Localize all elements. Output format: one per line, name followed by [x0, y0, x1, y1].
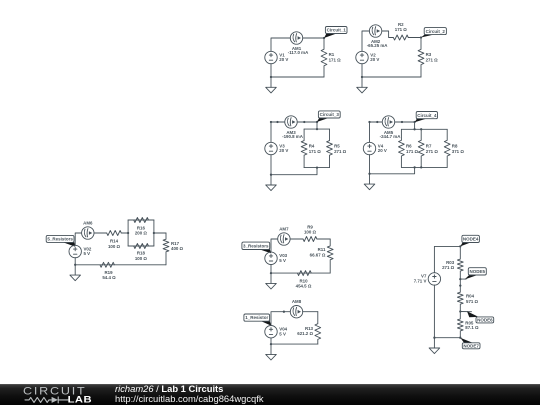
resistor R13 — [297, 312, 320, 344]
junction — [270, 121, 272, 123]
resistor R6 — [399, 129, 419, 167]
wire — [316, 122, 318, 129]
resistor R14 — [107, 231, 122, 249]
resistor R17 — [163, 233, 183, 265]
junction — [368, 121, 370, 123]
ground — [266, 77, 277, 93]
svg-text:Circuit_4: Circuit_4 — [417, 113, 437, 118]
resistor R1 — [321, 38, 341, 77]
node Circuit_1 flag — [324, 27, 347, 39]
svg-text:5 V: 5 V — [279, 331, 286, 336]
wire — [395, 121, 415, 123]
wire — [94, 232, 107, 234]
svg-text:5_Resistors: 5_Resistors — [47, 237, 73, 242]
svg-text:87.1 Ω: 87.1 Ω — [465, 325, 479, 330]
resistor R4 — [301, 129, 321, 168]
ground — [266, 175, 277, 191]
svg-text:20 V: 20 V — [370, 57, 379, 62]
svg-text:7.71 V: 7.71 V — [414, 279, 427, 284]
svg-text:NODE6: NODE6 — [477, 318, 493, 323]
svg-text:5 V: 5 V — [279, 258, 286, 263]
junction — [361, 76, 363, 78]
resistor R03 — [442, 246, 463, 279]
wire — [75, 233, 81, 245]
ammeter AM6 — [82, 220, 94, 239]
svg-text:454.5 Ω: 454.5 Ω — [296, 284, 312, 289]
svg-text:171 Ω: 171 Ω — [329, 57, 342, 62]
wire parallel box top — [401, 128, 447, 130]
svg-text:400 Ω: 400 Ω — [171, 246, 184, 251]
wire — [114, 264, 166, 266]
node NODE5 junction — [459, 278, 461, 280]
node Circuit_1 junction — [323, 37, 325, 39]
wire — [270, 64, 272, 77]
wire — [433, 285, 435, 338]
wire — [303, 37, 324, 39]
wire — [362, 76, 421, 78]
wire — [270, 155, 272, 175]
junction — [459, 284, 461, 286]
junction — [283, 311, 285, 313]
svg-text:AM7: AM7 — [279, 226, 289, 231]
ground — [364, 174, 375, 190]
node Circuit_3 junction — [316, 121, 318, 123]
svg-text:NODE5: NODE5 — [470, 269, 486, 274]
wire — [290, 238, 303, 240]
resistor R10 — [271, 271, 312, 289]
resistor R16 — [128, 218, 148, 236]
node NODE7 flag — [460, 338, 480, 349]
ground — [357, 77, 368, 93]
wire — [370, 167, 415, 173]
wire box bottom right — [149, 245, 154, 247]
junction — [303, 121, 305, 123]
wire — [271, 122, 285, 142]
ground — [266, 344, 277, 360]
wire box top right — [149, 219, 154, 221]
node Circuit_2 flag — [421, 28, 446, 38]
resistor R3 — [418, 38, 438, 78]
node Circuit_4 flag — [415, 112, 438, 123]
node NODE5 flag — [465, 268, 487, 280]
node 1_Resistor flag — [244, 314, 271, 326]
ammeter AM5 — [380, 116, 402, 139]
voltage source V03 — [265, 252, 288, 264]
resistor R5 — [327, 129, 347, 168]
svg-text:20 V: 20 V — [279, 57, 288, 62]
wire parallel box top — [304, 128, 329, 130]
wire — [414, 122, 416, 129]
svg-text:66.67 Ω: 66.67 Ω — [310, 252, 326, 257]
wire — [271, 239, 278, 252]
resistor R18 — [128, 244, 148, 261]
svg-text:271 Ω: 271 Ω — [426, 149, 439, 154]
wire — [303, 311, 318, 313]
junction — [420, 128, 422, 130]
svg-text:271 Ω: 271 Ω — [334, 149, 347, 154]
wire — [154, 232, 166, 234]
svg-text:200 Ω: 200 Ω — [135, 230, 148, 235]
wire parallel box bottom — [401, 166, 447, 168]
voltage source V02 — [69, 245, 92, 257]
svg-text:NODE4: NODE4 — [463, 237, 479, 242]
svg-text:-190.8 mA: -190.8 mA — [282, 134, 304, 139]
svg-text:LAB: LAB — [68, 395, 93, 405]
svg-text:AM6: AM6 — [83, 220, 93, 225]
ground — [429, 338, 440, 354]
svg-text:20 V: 20 V — [279, 148, 288, 153]
svg-text:http://circuitlab.com/cabg864w: http://circuitlab.com/cabg864wgcqfk — [115, 393, 264, 404]
wire — [317, 238, 330, 240]
svg-text:171 Ω: 171 Ω — [309, 149, 322, 154]
ammeter AM2 — [367, 25, 389, 48]
svg-text:-117.0 mA: -117.0 mA — [288, 50, 309, 55]
node NODE4 flag — [460, 235, 479, 246]
voltage source V2 — [356, 51, 380, 63]
wire — [408, 37, 421, 39]
ammeter AM1 — [288, 32, 309, 55]
wire — [271, 312, 290, 326]
junction — [368, 173, 370, 175]
wire — [362, 31, 369, 51]
svg-text:171 Ω: 171 Ω — [395, 27, 408, 32]
ground — [266, 273, 277, 289]
wire box left — [127, 220, 129, 246]
svg-text:271 Ω: 271 Ω — [442, 265, 455, 270]
svg-text:100 Ω: 100 Ω — [108, 244, 121, 249]
junction — [413, 128, 415, 130]
svg-text:AM8: AM8 — [292, 299, 302, 304]
junction — [74, 264, 76, 266]
junction — [153, 232, 155, 234]
wire parallel box bottom — [304, 167, 329, 169]
svg-text:Circuit_3: Circuit_3 — [320, 112, 340, 117]
voltage source V7 — [414, 273, 441, 285]
wire — [271, 343, 318, 345]
footer text — [115, 383, 264, 404]
svg-text:271 Ω: 271 Ω — [426, 57, 439, 62]
wire — [369, 155, 371, 174]
ground — [70, 265, 81, 281]
resistor R7 — [418, 129, 438, 167]
wire — [361, 64, 363, 77]
junction — [270, 272, 272, 274]
wire — [297, 121, 317, 123]
wire — [382, 31, 394, 38]
svg-text:R04: R04 — [466, 294, 475, 299]
svg-text:NODE7: NODE7 — [463, 343, 479, 348]
wire box right — [153, 220, 155, 246]
svg-text:1_Resistor: 1_Resistor — [245, 315, 268, 320]
svg-text:621.2 Ω: 621.2 Ω — [297, 331, 313, 336]
svg-text:371 Ω: 371 Ω — [452, 149, 465, 154]
wire — [270, 338, 272, 344]
node Circuit_4 junction — [413, 121, 415, 123]
ammeter AM8 — [290, 299, 302, 318]
junction — [420, 166, 422, 168]
junction — [270, 76, 272, 78]
svg-text:-65.25 mA: -65.25 mA — [367, 43, 389, 48]
junction — [413, 166, 415, 168]
wire — [271, 38, 290, 51]
svg-text:20 V: 20 V — [378, 148, 387, 153]
CircuitLab logo — [23, 386, 92, 405]
node NODE4 junction — [459, 245, 461, 247]
wire — [270, 265, 272, 274]
node Circuit_3 flag — [317, 111, 340, 122]
node Circuit_2 junction — [420, 36, 422, 38]
svg-text:-244.7 mA: -244.7 mA — [380, 134, 402, 139]
resistor R8 — [444, 129, 464, 167]
resistor R05 — [457, 312, 479, 338]
svg-text:54.4 Ω: 54.4 Ω — [102, 275, 116, 280]
wire — [271, 76, 324, 78]
resistor R9 — [303, 225, 317, 242]
wire — [434, 337, 460, 339]
node 3_Resistors flag — [242, 242, 271, 253]
wire NODE6 stub — [460, 311, 471, 313]
wire NODE5 stub — [460, 278, 466, 280]
node 5_Resistors flag — [46, 235, 75, 246]
svg-text:Circuit_1: Circuit_1 — [327, 28, 347, 33]
junction — [270, 174, 272, 176]
voltage source V04 — [265, 326, 288, 338]
svg-text:Circuit_2: Circuit_2 — [426, 29, 446, 34]
junction — [276, 121, 278, 123]
wire — [311, 272, 330, 274]
junction — [401, 121, 403, 123]
ammeter AM3 — [282, 116, 304, 139]
resistor R2 — [393, 22, 408, 40]
junction — [127, 232, 129, 234]
resistor R04 — [457, 279, 478, 311]
wire — [271, 168, 317, 175]
junction — [316, 166, 318, 168]
wire — [121, 232, 128, 234]
junction — [433, 337, 435, 339]
resistor R11 — [310, 239, 333, 273]
voltage source V1 — [265, 51, 289, 63]
svg-text:571 Ω: 571 Ω — [466, 299, 479, 304]
wire — [370, 122, 383, 142]
svg-text:100 Ω: 100 Ω — [135, 256, 148, 261]
node NODE7 junction — [459, 337, 461, 339]
node NODE6 junction — [459, 310, 461, 312]
junction — [376, 121, 378, 123]
voltage source V3 — [265, 142, 289, 154]
node NODE6 flag — [467, 311, 494, 323]
svg-text:171 Ω: 171 Ω — [406, 149, 419, 154]
wire — [74, 258, 76, 265]
ammeter AM7 — [278, 226, 290, 245]
svg-text:5 V: 5 V — [84, 251, 91, 256]
resistor R19 — [75, 262, 116, 280]
svg-text:3_Resistors: 3_Resistors — [243, 244, 269, 249]
junction — [316, 128, 318, 130]
wire — [434, 246, 460, 272]
svg-text:100 Ω: 100 Ω — [304, 230, 317, 235]
junction — [270, 343, 272, 345]
voltage source V4 — [363, 142, 387, 154]
